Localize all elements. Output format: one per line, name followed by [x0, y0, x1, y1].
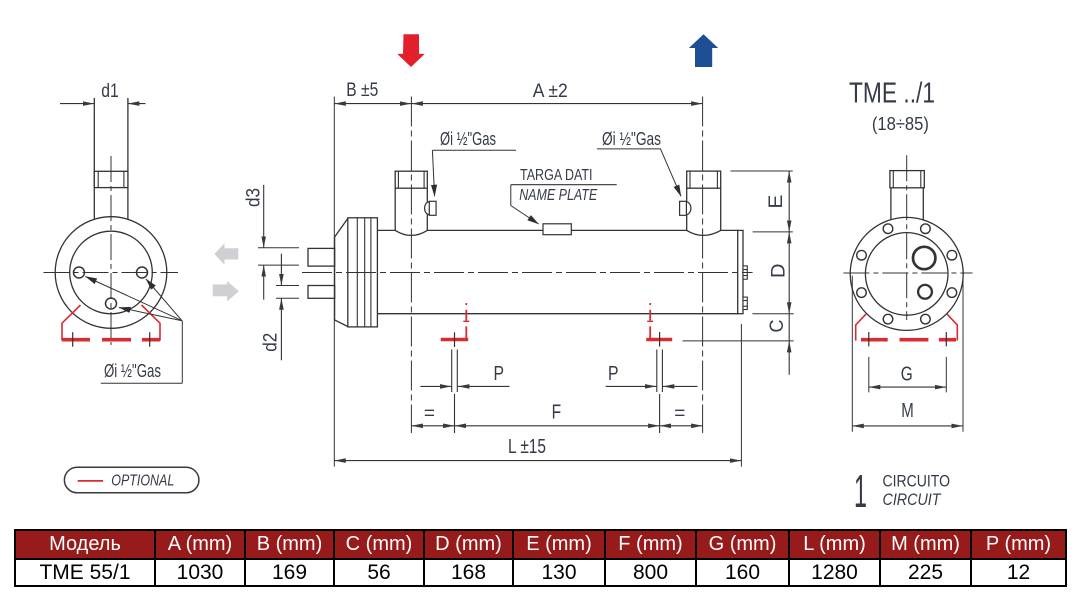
- svg-text:G: G: [901, 363, 913, 385]
- left view pipe hex cap: [94, 171, 128, 187]
- svg-text:C: C: [766, 320, 788, 333]
- G extension lines: [869, 357, 947, 393]
- lower tube stub d2: [308, 286, 335, 299]
- svg-text:(18÷85): (18÷85): [872, 114, 929, 134]
- D dimension line: [788, 232, 790, 314]
- svg-text:P: P: [608, 363, 619, 385]
- svg-text:OPTIONAL: OPTIONAL: [111, 473, 174, 490]
- left view optional bracket (red): [62, 305, 160, 341]
- = dimension left: [411, 425, 454, 427]
- C extension at foot bottom: [683, 340, 794, 342]
- B/L left extension line: [333, 97, 335, 467]
- svg-text:L ±15: L ±15: [508, 436, 546, 458]
- left view hole left: [74, 267, 85, 278]
- d2 lower stub extension lines: [276, 286, 299, 299]
- right foot (red): [646, 303, 672, 340]
- svg-text:d1: d1: [101, 80, 119, 102]
- left view pipe: [94, 98, 128, 220]
- svg-text:B ±5: B ±5: [346, 79, 378, 101]
- left view hole bottom: [106, 298, 117, 309]
- right port nipple: [680, 201, 691, 215]
- G dimension line: [869, 386, 947, 388]
- shell body: [377, 230, 737, 313]
- gas label left underline + leader: [432, 150, 516, 196]
- right gas port cap: [687, 171, 721, 188]
- M extension lines: [852, 273, 963, 432]
- svg-text:E: E: [765, 195, 787, 209]
- flow arrow in (red): [397, 34, 425, 67]
- svg-text:Øi ½"Gas: Øi ½"Gas: [602, 128, 661, 149]
- svg-text:d3: d3: [242, 188, 264, 207]
- flange disc: [348, 218, 378, 327]
- right view pipe cap: [890, 171, 924, 188]
- flow arrow out (blue): [689, 34, 718, 67]
- name plate underline: [511, 184, 617, 186]
- E dimension line: [788, 171, 790, 232]
- F dimension line: [455, 425, 660, 427]
- shell end plate: [738, 230, 743, 313]
- E extension top: [731, 170, 793, 172]
- svg-text:d2: d2: [259, 333, 281, 352]
- right foot bolt slot lines: [657, 350, 663, 434]
- right port centerline: [702, 97, 704, 434]
- name plate leader: [511, 185, 539, 224]
- svg-text:P: P: [493, 363, 504, 385]
- svg-text:F: F: [552, 402, 562, 424]
- optional legend pill: [64, 467, 199, 493]
- C dimension line: [788, 314, 790, 375]
- end plate bolt lower: [743, 297, 747, 309]
- left foot bolt slot lines: [452, 350, 458, 434]
- right view gas circle large: [913, 247, 935, 269]
- left foot bolt tick: [454, 332, 456, 347]
- tube-side arrow left (gray): [214, 243, 238, 265]
- left gas port cap: [395, 171, 427, 188]
- left view flange outer circle: [55, 217, 167, 329]
- svg-text:D: D: [768, 264, 790, 279]
- svg-text:1: 1: [854, 465, 867, 517]
- d3 dimension arrows: [263, 185, 265, 300]
- = dimension right: [660, 425, 703, 427]
- svg-text:Øi ½"Gas: Øi ½"Gas: [104, 360, 161, 381]
- left gas port body: [395, 188, 427, 235]
- svg-text:NAME PLATE: NAME PLATE: [519, 187, 597, 204]
- right gas port body: [687, 188, 721, 235]
- right view vertical centerline: [906, 155, 908, 320]
- flange hub: [335, 219, 348, 327]
- svg-text:Øi ½"Gas: Øi ½"Gas: [440, 128, 496, 149]
- left view flange inner circle: [70, 231, 153, 314]
- left view vertical centerline: [110, 156, 112, 345]
- right view flange inner circle: [865, 233, 948, 316]
- L right extension line: [740, 324, 742, 467]
- M dimension line: [852, 425, 963, 427]
- right view optional bracket (red): [856, 314, 958, 341]
- svg-text:A ±2: A ±2: [533, 80, 568, 102]
- right view flange outer circle: [850, 217, 963, 330]
- upper tube stub d3: [308, 248, 335, 266]
- right view pipe body: [891, 188, 923, 220]
- left view hole right: [137, 267, 148, 278]
- svg-text:M: M: [901, 400, 914, 422]
- left view horizontal centerline: [44, 272, 179, 274]
- d1 dimension: [60, 103, 146, 105]
- right view bolt holes: [857, 224, 957, 324]
- E/D extension at shell top: [753, 231, 793, 233]
- d2 dimension arrows: [280, 254, 282, 361]
- d3 upper stub extension lines: [258, 248, 299, 265]
- svg-text:=: =: [674, 404, 685, 425]
- right view bracket bolt ticks: [869, 332, 947, 346]
- left port nipple: [425, 201, 437, 215]
- optional legend red dash: [78, 480, 103, 482]
- right view horizontal centerline: [843, 272, 972, 274]
- B dimension line: [334, 103, 411, 105]
- end plate bolt upper: [743, 266, 747, 279]
- svg-text:TARGA DATI: TARGA DATI: [520, 167, 593, 184]
- left view bracket bolt ticks: [73, 332, 150, 347]
- left port centerline: [410, 97, 412, 434]
- D/C extension at shell bottom: [752, 313, 793, 315]
- right view gas circle small: [918, 285, 932, 299]
- P dimension left: [420, 385, 509, 387]
- svg-text:CIRCUITO: CIRCUITO: [883, 472, 951, 491]
- gas label right underline + leader: [597, 149, 681, 196]
- P dimension right: [606, 385, 698, 387]
- left foot (red): [441, 303, 470, 340]
- right foot bolt tick: [659, 332, 661, 347]
- tube-side arrow right (gray): [213, 281, 239, 301]
- L dimension line: [334, 460, 741, 462]
- dimension table: [14, 529, 1067, 587]
- left view gas label leaders: [86, 277, 183, 384]
- svg-text:TME ../1: TME ../1: [849, 77, 935, 109]
- svg-text:CIRCUIT: CIRCUIT: [883, 490, 942, 509]
- shell centerline: [302, 272, 753, 274]
- name plate rect: [543, 224, 571, 235]
- A dimension line: [411, 103, 702, 105]
- svg-text:=: =: [424, 404, 435, 425]
